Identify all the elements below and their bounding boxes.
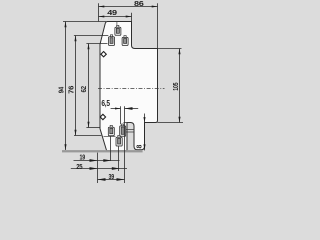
dim line 49 [99,16,132,18]
6,5 right arrow [125,107,133,110]
svg-text:19: 19 [80,155,86,162]
86 right [152,5,158,7]
dim line 62 vertical [88,44,90,128]
19 arrow at 97.5 [90,159,98,162]
6,5 extension line b / 39 right extension [124,106,126,183]
svg-text:105: 105 [173,82,180,90]
svg-text:8: 8 [137,145,144,149]
centerline (dash-dot) [98,88,165,90]
terminal clamp B2 [120,124,126,136]
bottom extension x98 [97,153,99,183]
terminal clamp T3 [122,36,128,46]
extension line right of 86 [157,3,159,48]
extension line y36 [74,35,108,37]
svg-text:39: 39 [109,174,115,181]
device body outline [100,22,158,151]
internal step line under clamp B1 [104,136,116,138]
svg-text:62: 62 [81,86,88,93]
terminal clamp B1 [108,125,114,135]
bottom extension x111 [110,136,112,162]
mounting surface thick line [62,150,143,152]
6,5 extension line a [120,106,122,124]
dim line 8 (flange) vertical [144,114,146,151]
dim line 94 vertical [65,22,67,151]
dimension texts [59,1,180,181]
62 top [87,44,89,50]
94 bottom [64,144,66,150]
extension line y128 [86,127,100,129]
105 top [178,49,180,55]
6,5 left arrow [115,107,121,109]
svg-text:86: 86 [134,1,144,8]
bottom extension x119 [118,146,120,171]
body bottom edge continuation left of fillet [124,122,131,124]
mounting hole diamond D1 [100,52,106,120]
76 top [74,36,76,42]
6,5 right arrow tail [125,108,139,110]
25 arrow at 118.5 [112,167,120,170]
svg-text:49: 49 [107,10,117,17]
dim line 86 [99,6,158,8]
extension line bottom right for 105 [158,122,184,124]
dim line 76 vertical [75,36,77,136]
6,5 left arrow tail [111,108,121,110]
terminal clamp T1 [115,25,121,35]
svg-text:25: 25 [76,164,82,171]
39 arrow right [117,178,125,181]
25 arrow at 97.5 [90,167,98,170]
39 arrow left [98,178,106,181]
49 left [99,15,105,17]
94 top [64,22,66,28]
86 left [99,5,105,7]
105 bottom [178,117,180,123]
dim line 105 vertical [179,49,181,123]
dim line 39 [98,179,125,181]
8 bottom (points up to flange bottom) [143,144,145,149]
76 bottom [74,130,76,136]
8 top (points down to body bottom) [143,117,145,122]
svg-text:76: 76 [69,86,76,94]
extension line top right for 105 [158,48,182,50]
19 arrow at 110.5 [103,159,111,162]
dim line 25 [71,168,127,170]
extension line y43 [86,43,107,45]
extension line y136 [74,135,101,137]
arrowheads [64,5,180,180]
49 right [126,15,132,17]
extension line left of 86/49 [98,3,100,21]
rib bridge between clamp B2 and flange [126,129,135,132]
terminal clamp T2 [109,35,115,46]
mounting hole diamond D2 [100,114,105,119]
extension line right of 49 [131,13,133,22]
mechanical dimension drawing: contactor side view [0,0,238,184]
62 bottom [87,122,89,128]
dim line 19 [74,160,120,162]
terminal clamp B3 [116,135,122,146]
svg-text:6,5: 6,5 [101,99,110,108]
top extension line for left dims [63,21,106,23]
screw slot above clamp T1 [116,22,118,27]
svg-text:94: 94 [59,87,66,93]
